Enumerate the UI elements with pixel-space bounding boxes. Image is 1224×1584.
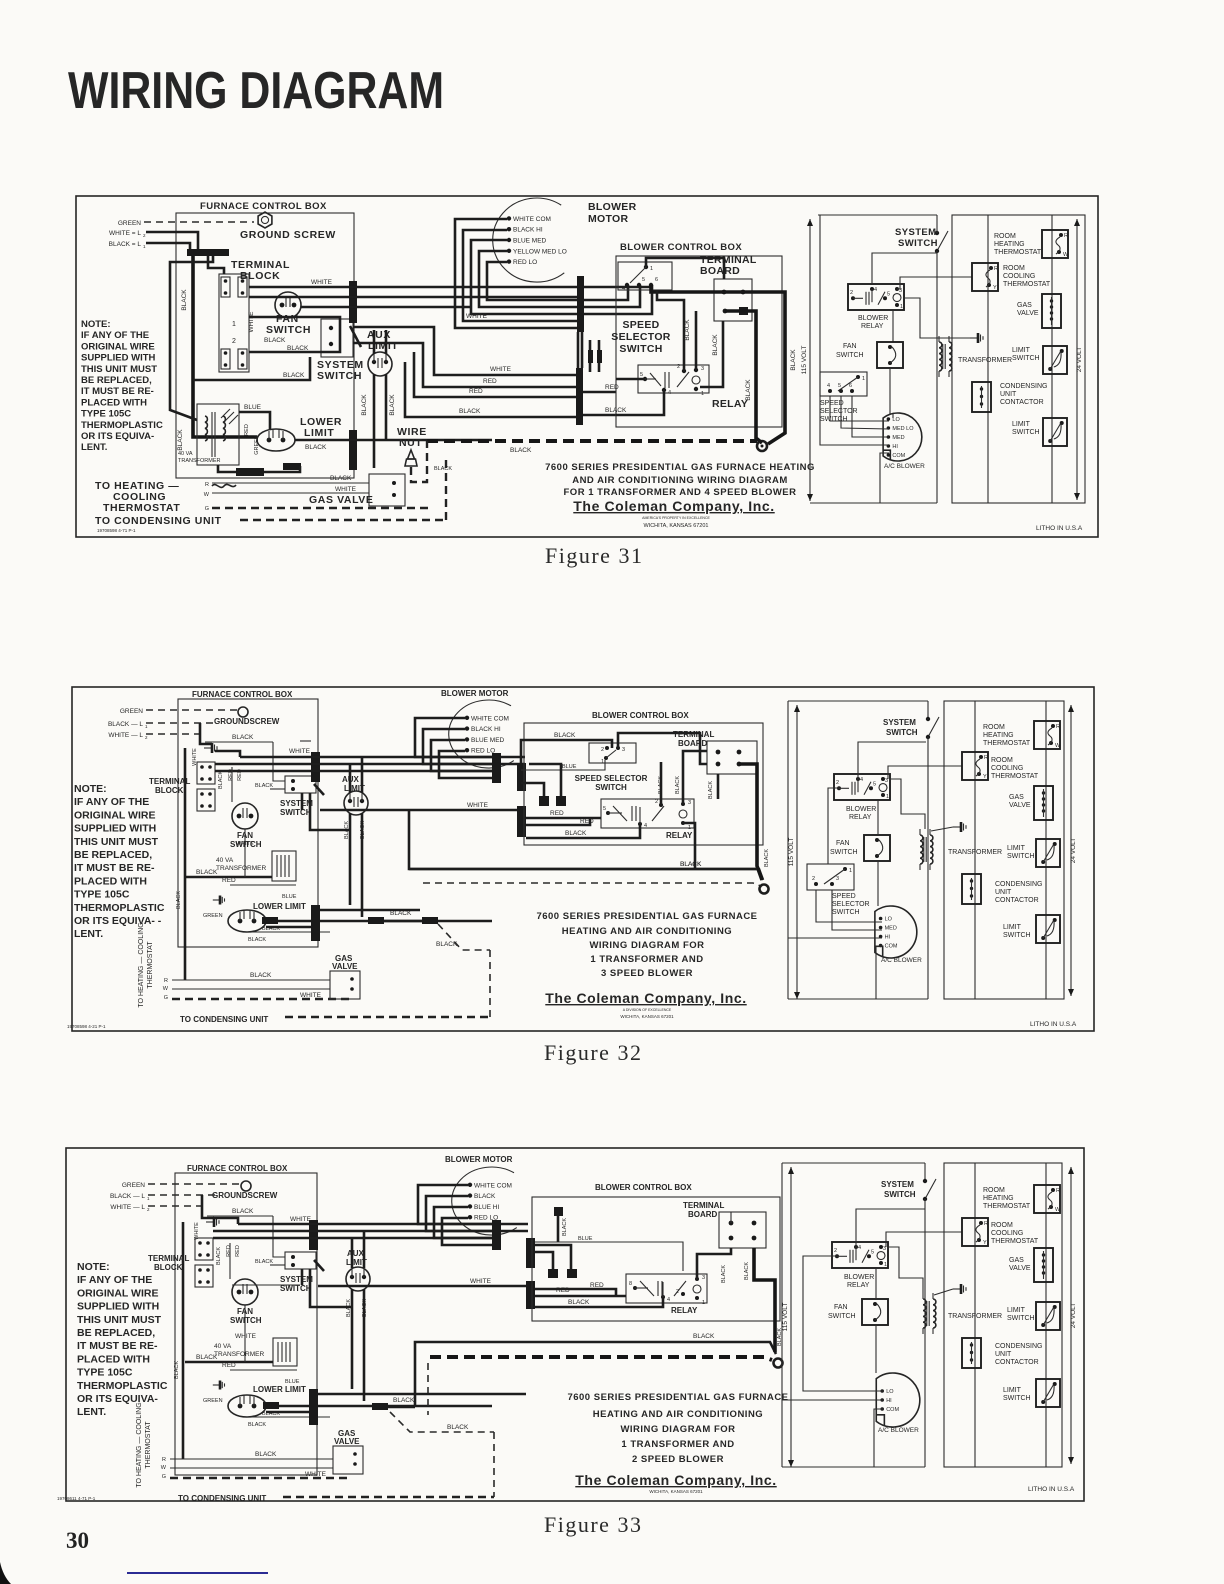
svg-text:1 TRANSFORMER AND: 1 TRANSFORMER AND [590,954,703,965]
svg-text:BLACK: BLACK [680,861,702,868]
svg-text:SPEED: SPEED [622,319,659,331]
svg-text:7600 SERIES PRESIDENTIAL GAS F: 7600 SERIES PRESIDENTIAL GAS FURNACE [536,911,757,922]
svg-text:A/C BLOWER: A/C BLOWER [878,1427,919,1434]
svg-text:115 VOLT: 115 VOLT [788,838,795,867]
aux limit wires [349,813,352,905]
svg-text:LIMIT: LIMIT [1003,1387,1022,1394]
svg-text:YELLOW MED LO: YELLOW MED LO [513,248,567,255]
speed selector ladder fig32 [807,864,854,890]
svg-text:4: 4 [622,286,625,292]
a/c blower fig32 [875,906,917,958]
heating tstat fig33 [1034,1185,1060,1213]
ladder fig33 115V [790,1167,792,1467]
svg-text:BLOWER MOTOR: BLOWER MOTOR [441,689,509,698]
ladder left rail dim 115V [809,219,811,501]
svg-text:5: 5 [887,292,890,298]
svg-text:BLACK: BLACK [568,1299,590,1306]
dashed diagonal fig33 [390,1412,494,1432]
system switch ladder [935,231,939,235]
svg-text:1: 1 [862,376,865,382]
svg-text:RED: RED [235,1245,241,1257]
splice bar S2 [236,468,264,476]
svg-text:BLACK: BLACK [721,1265,727,1283]
svg-text:SWITCH: SWITCH [1012,429,1040,436]
svg-text:4: 4 [874,287,877,293]
svg-text:BLACK: BLACK [393,1397,415,1404]
transformer T2 ladder [939,342,942,371]
svg-text:BLACK: BLACK [459,408,481,415]
svg-text:HEATING AND AIR CONDITIONIN: HEATING AND AIR CONDITIONING [593,1409,763,1420]
left vertical feeder fig32 [184,748,187,980]
svg-text:2: 2 [834,1248,837,1254]
svg-text:BLUE: BLUE [562,764,577,770]
svg-text:BLOWER: BLOWER [858,315,888,322]
svg-text:BLOCK: BLOCK [155,786,184,795]
black supply wire [146,243,190,250]
svg-text:BLACK: BLACK [181,289,188,311]
svg-text:LITHO IN U.S.A: LITHO IN U.S.A [1028,1486,1075,1493]
svg-text:THERMOPLASTIC: THERMOPLASTIC [74,902,165,914]
svg-text:SWITCH: SWITCH [820,416,848,423]
svg-text:BE REPLACED,: BE REPLACED, [74,849,152,861]
svg-text:BLACK: BLACK [434,466,452,472]
svg-text:19708598 4-21 P-1: 19708598 4-21 P-1 [67,1024,106,1029]
right ladder frame fig32 [944,701,1064,999]
green dashed wire [146,709,238,711]
wire relay2 up fig32 [660,762,663,805]
svg-text:WIRING DIAGRAM FOR: WIRING DIAGRAM FOR [589,940,704,951]
svg-text:RED LO: RED LO [513,259,537,266]
red wire to relay fig32 [526,817,601,820]
svg-text:SWITCH: SWITCH [1003,932,1031,939]
svg-text:WICHITA, KANSAS 67201: WICHITA, KANSAS 67201 [643,523,708,529]
svg-text:3: 3 [836,876,839,882]
bundle bars at blower box [517,763,526,791]
system switch (fig32) [285,776,316,793]
condensing unit contactor CC1 [972,382,991,412]
bundle bars fig33 [309,1220,318,1250]
svg-text:BLOWER MOTOR: BLOWER MOTOR [445,1155,513,1164]
wire R to gas valve [212,482,369,484]
wire relay 3 up to board [695,311,698,370]
svg-text:BLOWER: BLOWER [846,806,876,813]
svg-text:BLUE: BLUE [285,1379,300,1385]
svg-text:GROUNDSCREW: GROUNDSCREW [214,717,280,726]
svg-text:G: G [162,1474,166,1480]
fan switch fig33 [232,1279,258,1305]
wire relay3 to transformer primary fig32 [889,779,925,829]
svg-text:R: R [1056,1188,1060,1194]
svg-text:24 VOLT: 24 VOLT [1070,1303,1077,1329]
svg-text:1: 1 [147,1196,150,1201]
svg-text:BLACK: BLACK [248,937,266,943]
svg-text:PLACED WITH: PLACED WITH [74,875,147,887]
inline splices S4 S5 [588,350,593,363]
svg-text:SWITCH: SWITCH [1003,1395,1031,1402]
svg-text:WHITE = L: WHITE = L [109,230,141,237]
bundle bar lower fig32 [311,905,320,941]
system switch feed wires fig32 [270,788,285,790]
eyelet fig33 [774,1359,783,1368]
wires to blower fig32 [816,890,882,922]
svg-text:CONTACTOR: CONTACTOR [1000,399,1044,406]
wire board to top wire fig33 [730,1212,732,1223]
svg-text:AND AIR CONDITIONING WIRING DI: AND AIR CONDITIONING WIRING DIAGRAM [572,475,788,486]
svg-text:BLACK: BLACK [255,783,273,789]
svg-text:2: 2 [655,799,658,805]
svg-text:LIMIT: LIMIT [1012,421,1031,428]
svg-text:RED: RED [222,1362,236,1369]
aux limit wires up fig32 [349,764,352,793]
svg-text:WHITE COM: WHITE COM [471,715,509,722]
svg-text:BLUE: BLUE [578,1236,593,1242]
system switch fig33 [285,1252,316,1269]
svg-text:SUPPLIED WITH: SUPPLIED WITH [81,353,156,364]
svg-text:BE REPLACED,: BE REPLACED, [81,375,152,386]
svg-text:RELAY: RELAY [847,1282,870,1289]
gas valve fig33 [333,1446,363,1474]
svg-text:RED LO: RED LO [471,748,495,755]
aux limit wires up [373,330,376,354]
svg-text:LITHO IN U.S.A: LITHO IN U.S.A [1030,1021,1077,1028]
svg-text:5: 5 [640,372,643,378]
svg-text:TERMINAL: TERMINAL [683,1201,724,1210]
wire G dashed [212,507,430,509]
red exit to relay [583,391,616,394]
ladder left conductor fig32 [787,701,789,999]
svg-text:RED: RED [469,388,483,395]
svg-text:RELAY: RELAY [712,398,748,410]
red wire to blower box [353,343,576,387]
wires board to right edge fig32 [739,764,762,880]
system switch feed wires fig33 [270,1264,285,1266]
24V dim fig32 [1070,705,1072,996]
svg-text:5: 5 [642,277,645,283]
svg-text:RED: RED [222,877,236,884]
svg-text:4: 4 [858,1245,861,1251]
svg-text:5: 5 [838,383,841,389]
gas valve ladder fig33 [1034,1248,1053,1282]
figure 32 border [72,687,1094,1031]
svg-text:BLACK: BLACK [248,1422,266,1428]
svg-text:BLACK: BLACK [790,349,797,371]
svg-text:BE REPLACED,: BE REPLACED, [77,1327,155,1339]
svg-text:ROOM: ROOM [991,757,1013,764]
svg-text:115 VOLT: 115 VOLT [782,1303,789,1332]
ground screw GS2 [238,707,248,717]
svg-text:BLACK: BLACK [708,781,714,799]
small splices in box [539,796,549,806]
svg-text:1: 1 [143,244,146,249]
wire fan switch down [889,368,891,414]
wire relay4 to system switch [872,253,937,284]
svg-text:LOWER LIMIT: LOWER LIMIT [253,902,306,911]
svg-text:WHITE COM: WHITE COM [474,1182,512,1189]
svg-text:SWITCH: SWITCH [886,728,918,737]
right ladder frame [952,215,1085,503]
wire relay to fan switch [892,310,894,342]
svg-text:AUX: AUX [347,1249,365,1258]
svg-text:ROOM: ROOM [994,233,1016,240]
svg-text:R: R [984,1221,988,1227]
svg-text:COM: COM [886,1407,899,1413]
to condensing unit dashed wire [240,519,446,521]
blower control box (fig31) [616,256,782,427]
black wire y317 [249,317,340,352]
svg-text:THERMOSTAT: THERMOSTAT [983,740,1031,747]
blower control box (fig32) [524,723,763,845]
svg-text:7600 SERIES PRESIDENTIAL GAS F: 7600 SERIES PRESIDENTIAL GAS FURNACE [567,1392,788,1403]
svg-text:7600 SERIES PRESIDENTIAL GAS F: 7600 SERIES PRESIDENTIAL GAS FURNACE HEA… [545,462,815,473]
svg-text:SWITCH: SWITCH [230,1316,262,1325]
svg-text:4: 4 [827,383,830,389]
svg-text:BLACK: BLACK [305,444,327,451]
svg-text:HI: HI [892,444,898,450]
motor wires fig32 [415,718,492,757]
transformer T1 40VA [197,404,239,465]
aux limit AL1 [368,352,392,376]
svg-text:ROOM: ROOM [983,724,1005,731]
eyelet E1 [757,441,767,451]
svg-text:RED: RED [580,818,594,825]
white wire fig33 [232,1284,300,1286]
svg-text:SWITCH: SWITCH [898,238,938,249]
aux limit wires down [373,374,376,468]
svg-text:BLACK: BLACK [174,1361,180,1379]
ladder top rail [818,214,937,216]
svg-text:RELAY: RELAY [671,1306,698,1315]
svg-text:1: 1 [701,391,704,397]
svg-text:1: 1 [601,759,604,765]
svg-text:THIS UNIT MUST: THIS UNIT MUST [77,1314,162,1326]
svg-text:GREEN: GREEN [122,1182,145,1189]
svg-text:W: W [1055,743,1061,749]
svg-text:WHITE — L: WHITE — L [108,732,143,739]
svg-text:2: 2 [145,735,148,740]
svg-text:The Coleman Company, Inc.: The Coleman Company, Inc. [545,990,746,1006]
svg-text:BLACK: BLACK [389,394,396,416]
fan switch FS (fig32) [232,803,258,829]
svg-text:115 VOLT: 115 VOLT [801,346,808,375]
svg-text:W: W [163,986,169,992]
svg-text:ORIGINAL WIRE: ORIGINAL WIRE [81,341,155,352]
svg-text:2: 2 [232,338,236,345]
svg-text:NOTE:: NOTE: [81,319,111,330]
svg-text:VALVE: VALVE [1009,1265,1031,1272]
cooling tstat fig33 [962,1218,988,1246]
svg-text:SWITCH: SWITCH [884,1190,916,1199]
svg-text:A/C BLOWER: A/C BLOWER [884,463,925,470]
wire relay 2 up [657,290,684,371]
contactor fig33 [962,1338,981,1368]
svg-text:BLACK: BLACK [562,1218,568,1236]
splices in box fig33 [554,1207,563,1216]
svg-text:BLACK: BLACK [554,732,576,739]
contactor fig32 [962,874,981,904]
svg-text:BLACK: BLACK [447,1424,469,1431]
dashed branch down [411,441,427,482]
a/c blower AC1 [883,413,922,461]
svg-text:GREEN: GREEN [203,1398,223,1404]
svg-text:BLACK: BLACK [264,337,286,344]
fan switch FS1 [275,292,301,318]
svg-text:19708611 4-71 P-1: 19708611 4-71 P-1 [57,1496,96,1501]
svg-text:COOLING: COOLING [991,1230,1023,1237]
svg-text:1: 1 [886,794,889,800]
svg-text:4: 4 [667,1297,670,1303]
dashed diagonal to condensing [438,924,490,950]
svg-text:8: 8 [629,1281,632,1287]
white supply [146,733,205,735]
svg-text:BLOCK: BLOCK [240,270,280,282]
red wires to relay fig33 [535,1295,626,1298]
limit switch LS1 [1043,346,1067,374]
svg-text:SPEED: SPEED [820,400,844,407]
wire relay2 to speed selector fig32 [828,788,839,864]
svg-text:RELAY: RELAY [861,323,884,330]
wire speed selector 1 to terminal board [646,258,724,279]
svg-text:BLUE MED: BLUE MED [513,238,547,245]
svg-text:SWITCH: SWITCH [830,849,858,856]
svg-text:GAS: GAS [1017,302,1032,309]
svg-text:W: W [1063,252,1069,258]
svg-text:SYSTEM: SYSTEM [280,799,313,808]
svg-text:2: 2 [850,290,853,296]
thick wire through board to box edge [651,285,785,444]
svg-text:FURNACE CONTROL BOX: FURNACE CONTROL BOX [200,201,327,212]
svg-text:LENT.: LENT. [81,442,107,453]
wire board to eyelet [725,311,762,443]
ground screw GS1 [258,212,272,228]
svg-text:BLACK: BLACK [216,1247,222,1265]
relay RL1 [638,365,709,393]
ladder left conductor fig33 [781,1163,783,1467]
svg-text:UNIT: UNIT [995,1351,1012,1358]
svg-text:SELECTOR: SELECTOR [832,901,870,908]
red wire2 fig32 [526,818,590,825]
svg-text:BLACK: BLACK [255,1259,273,1265]
green ground wire (dashed) [144,221,254,223]
svg-text:BLACK HI: BLACK HI [471,726,501,733]
svg-text:SWITCH: SWITCH [828,1313,856,1320]
wire relay3 to board fig33 [697,1248,731,1279]
svg-text:3 SPEED BLOWER: 3 SPEED BLOWER [601,968,693,979]
ladder rails fig32 [788,700,928,702]
system switch ladder fig32 [927,701,929,719]
splice S3 [283,463,301,470]
limit switch2 fig33 [1036,1379,1060,1407]
svg-text:CONDENSING: CONDENSING [995,881,1042,888]
svg-text:BLACK: BLACK [196,869,218,876]
lower limit fig33 [213,1384,220,1386]
svg-text:SWITCH: SWITCH [619,343,662,355]
svg-text:WICHITA, KANSAS 67201: WICHITA, KANSAS 67201 [649,1489,703,1494]
svg-text:FAN: FAN [836,840,850,847]
svg-text:LIMIT: LIMIT [1003,924,1022,931]
svg-text:BLOWER CONTROL BOX: BLOWER CONTROL BOX [595,1183,692,1192]
wire: main black down left side [193,256,257,437]
svg-text:6: 6 [849,383,852,389]
svg-text:COOLING: COOLING [991,765,1023,772]
svg-text:FOR 1 TRANSFORMER AND 4 SPEED: FOR 1 TRANSFORMER AND 4 SPEED BLOWER [564,487,797,498]
svg-text:BLACK: BLACK [330,475,352,482]
svg-text:BLACK: BLACK [361,394,368,416]
splice right of lower limit [368,917,384,924]
svg-text:BLUE: BLUE [244,404,262,411]
svg-text:TERMINAL: TERMINAL [673,730,714,739]
right conductors fig32 [974,701,976,999]
svg-text:SYSTEM: SYSTEM [895,227,936,238]
svg-text:GREEN: GREEN [120,708,143,715]
figure 31 border [76,196,1098,537]
svg-text:WIRING DIAGRAM FOR: WIRING DIAGRAM FOR [620,1424,735,1435]
svg-text:WHITE: WHITE [248,311,255,333]
limit switch2 fig32 [1036,915,1060,943]
ground fig32 [953,826,961,828]
wire bundle bar B4 [576,368,583,425]
svg-text:SYSTEM: SYSTEM [881,1180,914,1189]
svg-text:PLACED WITH: PLACED WITH [77,1353,150,1365]
bundle to blower ctrl box [501,756,525,759]
white long fig33 [318,1285,526,1288]
svg-text:40 VA: 40 VA [178,451,193,457]
wire blower COM to bottom [880,453,889,503]
svg-text:LIMIT: LIMIT [1007,1307,1026,1314]
blower motor fig33 [452,1167,517,1235]
black top fig33 [207,1215,273,1217]
svg-text:SWITCH: SWITCH [1007,853,1035,860]
svg-text:BLACK: BLACK [177,429,184,451]
ladder left conductor [819,215,821,372]
svg-text:WHITE: WHITE [235,1333,257,1340]
svg-text:2: 2 [147,1207,150,1212]
bundle bar fig32 mid [492,753,501,783]
svg-text:GAS VALVE: GAS VALVE [309,494,374,506]
svg-text:LO: LO [885,917,893,923]
svg-text:FURNACE CONTROL BOX: FURNACE CONTROL BOX [192,690,293,699]
svg-text:HI: HI [885,935,891,941]
svg-text:BLACK: BLACK [565,830,587,837]
svg-text:IT MUST BE RE-: IT MUST BE RE- [81,386,154,397]
svg-text:VALVE: VALVE [334,1437,360,1446]
svg-text:The Coleman Company, Inc.: The Coleman Company, Inc. [573,498,774,514]
ladder bottom rail [810,502,937,504]
svg-text:TRANSFORMER: TRANSFORMER [214,1351,265,1358]
svg-text:W: W [204,492,210,498]
svg-text:SYSTEM: SYSTEM [883,718,916,727]
blue wire from transformer [239,412,270,430]
svg-text:IT MUST BE RE-: IT MUST BE RE- [77,1340,158,1352]
scan corner shadow bottom-left [0,1562,14,1584]
svg-text:UNIT: UNIT [1000,391,1017,398]
svg-text:THERMOSTAT: THERMOSTAT [1003,281,1051,288]
svg-text:TO CONDENSING UNIT: TO CONDENSING UNIT [180,1015,268,1024]
black solid wire to eyelet fig32 [409,810,763,880]
svg-text:SWITCH: SWITCH [266,324,311,336]
blower motor M1 [493,198,565,282]
furnace control box (fig31) [176,213,354,478]
furnace control box (fig32) [178,699,318,947]
svg-text:COOLING: COOLING [1003,273,1035,280]
svg-text:LIMIT: LIMIT [1007,845,1026,852]
svg-text:TYPE 105C: TYPE 105C [74,889,130,901]
svg-text:WHITE COM: WHITE COM [513,216,551,223]
svg-text:ROOM: ROOM [1003,265,1025,272]
svg-text:1: 1 [900,304,903,310]
svg-text:1: 1 [849,868,852,874]
a/c blower fig33 [876,1373,920,1427]
svg-text:BLACK: BLACK [693,1333,715,1340]
